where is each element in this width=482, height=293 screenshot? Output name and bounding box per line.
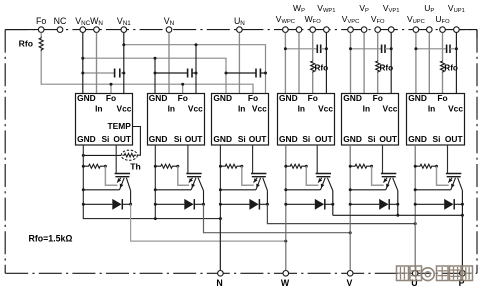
transistor Q5 IGBT P-side V bbox=[381, 174, 398, 191]
terminal WP bbox=[296, 27, 302, 33]
wire GND rail N-side W bbox=[83, 145, 220, 219]
wire gate drive P-side W bbox=[316, 145, 318, 174]
terminal VUPC bbox=[413, 27, 419, 33]
svg-text:Vcc: Vcc bbox=[188, 103, 203, 113]
junction routing-output bbox=[284, 240, 287, 243]
junction cap right bbox=[325, 47, 328, 50]
svg-text:Si: Si bbox=[302, 134, 310, 144]
wire border corner segment top-left bbox=[5, 29, 38, 31]
terminal VWPC bbox=[283, 27, 289, 33]
wire VN1 to IC1 Vcc pin bbox=[123, 33, 125, 94]
svg-text:OUT: OUT bbox=[315, 134, 334, 144]
terminal VFO bbox=[375, 27, 381, 33]
wire VP input to IC5 In pin bbox=[363, 33, 365, 94]
wire output routing N-side U to U terminal bbox=[267, 204, 415, 223]
wire emitter N-side U bbox=[220, 189, 256, 191]
junction Rsense-Si bbox=[435, 165, 438, 168]
junction diode cathode node bbox=[331, 203, 334, 206]
transistor Q4 IGBT P-side W bbox=[316, 174, 333, 191]
transistor Q2 IGBT N-side V bbox=[186, 174, 203, 191]
svg-text:TEMP: TEMP bbox=[108, 121, 132, 131]
wire emitter N-side V bbox=[155, 189, 191, 191]
wire VUPC to IC6 GND pin bbox=[415, 33, 417, 94]
junction Rsense-Si bbox=[305, 165, 308, 168]
package outline border (dash-dot) bbox=[5, 29, 477, 31]
wire collector node N-side U bbox=[266, 191, 268, 205]
svg-text:Si: Si bbox=[238, 134, 246, 144]
wire IC2 Vcc pin drop bbox=[195, 45, 197, 94]
junction rail-diode anode bbox=[219, 203, 222, 206]
svg-text:GND: GND bbox=[213, 134, 232, 144]
wire FO bus (Rfo to N-side IC Fo pins) bbox=[41, 51, 253, 93]
junction Fo-IC2 bbox=[181, 83, 184, 86]
wire Fo pin drop IC2 bbox=[182, 84, 184, 93]
svg-text:GND: GND bbox=[279, 93, 298, 103]
terminal VN1 bbox=[121, 27, 127, 33]
junction rail-Rsense bbox=[349, 165, 352, 168]
wire Si sense N-side V bbox=[178, 166, 189, 185]
wire FO terminal lead bbox=[40, 32, 42, 36]
wire collector node N-side V bbox=[203, 191, 205, 205]
wire VVP1 to IC5 Vcc pin bbox=[390, 33, 392, 94]
svg-text:In: In bbox=[168, 103, 175, 113]
svg-text:OUT: OUT bbox=[379, 134, 398, 144]
wire Fo pin drop IC1 bbox=[110, 84, 112, 93]
diode D2 freewheel N-side V bbox=[155, 199, 203, 210]
terminal VUP1 bbox=[454, 27, 460, 33]
svg-text:Si: Si bbox=[433, 134, 441, 144]
wire VWPC to IC4 GND pin bbox=[284, 33, 286, 94]
wire collector node N-side W bbox=[130, 191, 132, 205]
svg-text:U: U bbox=[411, 278, 417, 288]
svg-text:Fo: Fo bbox=[437, 93, 447, 103]
wire collector node P-side U down to P terminal bbox=[461, 191, 463, 271]
junction rail-Rsense bbox=[154, 165, 157, 168]
junction C3 left bbox=[225, 72, 228, 75]
svg-text:Vcc: Vcc bbox=[318, 103, 333, 113]
wire N rail to N terminal bbox=[219, 219, 221, 271]
svg-text:GND: GND bbox=[408, 93, 427, 103]
wire emitter rail P-side V down to output terminal bbox=[349, 145, 351, 270]
diode D4 freewheel P-side W bbox=[286, 199, 333, 210]
resistor sense R1 bbox=[83, 164, 105, 168]
wire WFO lower lead to Fo pin bbox=[312, 73, 314, 94]
junction P bus end bbox=[461, 214, 464, 217]
wire VVPC to IC5 GND pin bbox=[350, 33, 352, 94]
diode D1 freewheel N-side W bbox=[83, 199, 130, 210]
op-amp U1 driver IC block bbox=[76, 93, 133, 145]
terminal U bbox=[412, 271, 418, 277]
svg-text:Vcc: Vcc bbox=[382, 103, 397, 113]
terminal UP bbox=[427, 27, 433, 33]
svg-text:GND: GND bbox=[149, 93, 168, 103]
op-amp U4 driver IC block bbox=[278, 93, 335, 145]
svg-text:Th: Th bbox=[130, 162, 141, 172]
svg-text:GND: GND bbox=[408, 134, 427, 144]
junction Vcc bus-IC2 bbox=[195, 43, 198, 46]
svg-text:Si: Si bbox=[101, 134, 109, 144]
junction Rsense-Si bbox=[176, 165, 179, 168]
wire output routing N-side V to V terminal bbox=[204, 204, 351, 232]
resistor sense R3 bbox=[220, 164, 241, 168]
junction diode cathode node bbox=[396, 203, 399, 206]
wire VFO upper lead bbox=[377, 33, 379, 61]
svg-text:Si: Si bbox=[174, 134, 182, 144]
junction Rsense-Si bbox=[104, 165, 107, 168]
wire UP input to IC6 In pin bbox=[428, 33, 430, 94]
wire GND rail N-side V bbox=[154, 145, 156, 219]
svg-text:GND: GND bbox=[279, 134, 298, 144]
wire UFO upper lead bbox=[442, 33, 444, 61]
junction rail-Rsense bbox=[414, 165, 417, 168]
op-amp U2 driver IC block bbox=[148, 93, 205, 145]
terminal P bbox=[460, 271, 466, 277]
wire P collector bus bbox=[333, 214, 463, 216]
resistor Rfo (V-phase fault output) bbox=[376, 61, 380, 73]
junction rail-diode anode bbox=[154, 203, 157, 206]
wire collector node P-side W to P bus bbox=[332, 191, 334, 216]
junction rail-emitter bbox=[154, 188, 157, 191]
junction rail-NR bbox=[154, 217, 157, 220]
junction VN1-Vcc bus bbox=[122, 43, 125, 46]
watermark (decorative) bbox=[397, 266, 473, 281]
junction rail-emitter bbox=[349, 188, 352, 191]
junction rail-diode anode bbox=[414, 203, 417, 206]
terminal VVP1 bbox=[388, 27, 394, 33]
svg-text:GND: GND bbox=[343, 134, 362, 144]
svg-text:Fo: Fo bbox=[106, 93, 116, 103]
wire collector node P-side V to P bus bbox=[397, 191, 399, 216]
junction cap left bbox=[349, 47, 352, 50]
svg-text:Vcc: Vcc bbox=[116, 103, 131, 113]
junction cap left bbox=[414, 47, 417, 50]
junction VNC-GND bus bbox=[81, 57, 84, 60]
transistor Q3 IGBT N-side U bbox=[251, 174, 267, 191]
wire border corner segment top-right bbox=[459, 29, 477, 31]
diode D5 freewheel P-side V bbox=[350, 199, 398, 210]
terminal UN bbox=[237, 27, 243, 33]
capacitor C1 (IC1 VNC-VN1) bbox=[83, 72, 115, 74]
wire N-side Vcc bus bbox=[124, 45, 266, 94]
svg-text:In: In bbox=[298, 103, 305, 113]
wire emitter P-side W bbox=[286, 189, 321, 191]
wire gate drive P-side V bbox=[382, 145, 384, 174]
wire VN to IC2 In bbox=[168, 33, 170, 94]
op-amp U5 driver IC block bbox=[342, 93, 399, 145]
junction rail-diode anode bbox=[349, 203, 352, 206]
junction C1 left bbox=[81, 72, 84, 75]
wire UN to IC3 In bbox=[238, 33, 240, 94]
wire IC2 GND pin drop bbox=[154, 58, 156, 93]
svg-text:GND: GND bbox=[149, 134, 168, 144]
svg-text:GND: GND bbox=[77, 134, 96, 144]
junction rail-Rsense bbox=[284, 165, 287, 168]
wire N-side GND bus bbox=[83, 58, 226, 93]
junction rail-NR bbox=[219, 217, 222, 220]
wire VNC to IC1 GND pin bbox=[82, 33, 84, 94]
terminal VWP1 bbox=[324, 27, 330, 33]
transistor Q1 IGBT N-side W bbox=[115, 174, 131, 191]
junction rail-diode anode bbox=[284, 203, 287, 206]
junction C2 left bbox=[154, 72, 157, 75]
thermistor Th (dashed ellipse with resistor) bbox=[121, 150, 137, 160]
wire emitter P-side V bbox=[350, 189, 386, 191]
junction rail-Rsense bbox=[219, 165, 222, 168]
capacitor C6 (IC6 supply) bbox=[416, 48, 447, 50]
wire emitter P-side U bbox=[415, 189, 451, 191]
wire gate drive N-side V bbox=[187, 145, 189, 174]
wire Si sense N-side U bbox=[242, 166, 254, 185]
terminal N bbox=[218, 271, 224, 277]
wire WN to IC1 In bbox=[96, 33, 98, 94]
svg-text:V: V bbox=[346, 278, 352, 288]
junction C2 right bbox=[195, 72, 198, 75]
wire Si sense P-side V bbox=[372, 166, 384, 185]
svg-text:Fo: Fo bbox=[248, 93, 258, 103]
wire output routing N-side W to W terminal bbox=[131, 204, 286, 241]
wire WFO upper lead bbox=[312, 33, 314, 61]
wire gate drive N-side W bbox=[115, 145, 117, 174]
junction diode cathode node bbox=[129, 203, 132, 206]
svg-text:In: In bbox=[95, 103, 102, 113]
junction P bus bbox=[396, 214, 399, 217]
junction rail-thermistor bbox=[82, 154, 85, 157]
wire thermistor left lead bbox=[83, 154, 121, 156]
svg-text:OUT: OUT bbox=[445, 134, 464, 144]
junction diode cathode node bbox=[202, 203, 205, 206]
diode D3 freewheel N-side U bbox=[220, 199, 267, 210]
capacitor C4 (IC4 supply) bbox=[285, 48, 317, 50]
diode D6 freewheel P-side U bbox=[415, 199, 462, 210]
terminal W bbox=[283, 271, 289, 277]
wire TEMP pin to thermistor bbox=[133, 127, 140, 156]
svg-text:Fo: Fo bbox=[308, 93, 318, 103]
svg-text:NC: NC bbox=[54, 16, 67, 26]
terminal UFO bbox=[440, 27, 446, 33]
svg-text:Vcc: Vcc bbox=[252, 103, 267, 113]
junction rail-emitter bbox=[219, 188, 222, 191]
svg-text:GND: GND bbox=[77, 93, 96, 103]
svg-text:OUT: OUT bbox=[113, 134, 132, 144]
junction C1 right bbox=[122, 72, 125, 75]
resistor Rfo (U-phase fault output) bbox=[441, 61, 445, 73]
resistor sense R2 bbox=[155, 164, 178, 168]
svg-text:Si: Si bbox=[368, 134, 376, 144]
junction rail-emitter bbox=[414, 188, 417, 191]
terminal V bbox=[347, 271, 353, 277]
junction routing-output bbox=[349, 231, 352, 234]
wire Si sense P-side U bbox=[437, 166, 449, 185]
junction rail-diode anode bbox=[82, 203, 85, 206]
svg-text:OUT: OUT bbox=[185, 134, 204, 144]
terminal VNC bbox=[80, 27, 86, 33]
svg-text:GND: GND bbox=[343, 93, 362, 103]
svg-text:In: In bbox=[363, 103, 370, 113]
op-amp U3 driver IC block bbox=[212, 93, 269, 145]
terminal FO bbox=[38, 27, 44, 33]
terminal WN bbox=[94, 27, 100, 33]
junction rail-emitter bbox=[82, 188, 85, 191]
resistor sense R6 bbox=[415, 164, 436, 168]
wire VUP1 to IC6 Vcc pin bbox=[455, 33, 457, 94]
junction cap right bbox=[455, 47, 458, 50]
terminal VVPC bbox=[348, 27, 354, 33]
wire emitter rail P-side U down to output terminal bbox=[414, 145, 416, 270]
wire gate drive N-side U bbox=[252, 145, 254, 174]
svg-text:W: W bbox=[281, 278, 290, 288]
junction routing-output bbox=[414, 222, 417, 225]
junction C3 right bbox=[264, 72, 267, 75]
svg-text:Rfo=1.5kΩ: Rfo=1.5kΩ bbox=[29, 233, 73, 243]
svg-text:Fo: Fo bbox=[373, 93, 383, 103]
resistor Rfo (FO pull) bbox=[39, 37, 43, 52]
capacitor C5 (IC5 supply) bbox=[351, 48, 382, 50]
wire VFO lower lead to Fo pin bbox=[377, 73, 379, 94]
junction Rsense-Si bbox=[370, 165, 373, 168]
svg-text:N: N bbox=[216, 278, 222, 288]
wire WP input to IC4 In pin bbox=[298, 33, 300, 94]
capacitor C2 (IC2 supply) bbox=[155, 72, 188, 74]
terminal VP bbox=[361, 27, 367, 33]
resistor sense R4 bbox=[286, 164, 307, 168]
junction rail-Rsense bbox=[82, 165, 85, 168]
terminal NC bbox=[57, 27, 63, 33]
wire UFO lower lead to Fo pin bbox=[442, 73, 444, 94]
svg-text:Fo: Fo bbox=[178, 93, 188, 103]
junction Fo-IC1 bbox=[110, 83, 113, 86]
svg-text:Fo: Fo bbox=[36, 16, 46, 26]
junction GND bus-IC2 bbox=[154, 57, 157, 60]
junction cap right bbox=[390, 47, 393, 50]
wire Si sense N-side W bbox=[105, 166, 117, 185]
resistor sense R5 bbox=[350, 164, 371, 168]
svg-text:Rfo: Rfo bbox=[19, 39, 33, 49]
terminal VN bbox=[166, 27, 172, 33]
junction rail-emitter bbox=[284, 188, 287, 191]
wire GND rail N-side U down to N terminal bbox=[219, 145, 221, 270]
svg-text:OUT: OUT bbox=[249, 134, 268, 144]
resistor Rfo (W-phase fault output) bbox=[311, 61, 315, 73]
svg-text:In: In bbox=[238, 103, 245, 113]
junction cap left bbox=[284, 47, 287, 50]
wire emitter N-side W bbox=[83, 189, 119, 191]
svg-text:Vcc: Vcc bbox=[448, 103, 463, 113]
transistor Q6 IGBT P-side U bbox=[446, 174, 463, 191]
wire gate drive P-side U bbox=[447, 145, 449, 174]
svg-text:In: In bbox=[428, 103, 435, 113]
svg-text:GND: GND bbox=[213, 93, 232, 103]
junction diode cathode node bbox=[461, 203, 464, 206]
wire Si sense P-side W bbox=[306, 166, 318, 185]
junction Rsense-Si bbox=[240, 165, 243, 168]
wire VWP1 to IC4 Vcc pin bbox=[325, 33, 327, 94]
junction diode cathode node bbox=[266, 203, 269, 206]
wire emitter rail P-side W down to output terminal bbox=[285, 145, 287, 270]
terminal WFO bbox=[310, 27, 316, 33]
capacitor C3 (IC3 supply) bbox=[226, 72, 256, 74]
op-amp U6 driver IC block bbox=[407, 93, 465, 145]
